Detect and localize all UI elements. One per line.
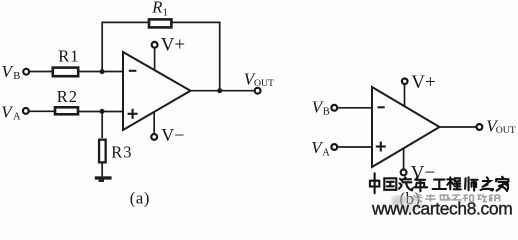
svg-text:www.cartech8.com: www.cartech8.com xyxy=(371,199,512,219)
svg-text:OUT: OUT xyxy=(496,125,516,136)
svg-text:R: R xyxy=(151,0,162,17)
svg-text:1: 1 xyxy=(163,8,168,19)
svg-text:R3: R3 xyxy=(111,143,132,162)
svg-text:OUT: OUT xyxy=(254,78,274,89)
svg-text:(a): (a) xyxy=(130,189,150,208)
svg-text:V−: V− xyxy=(161,125,184,145)
svg-text:A: A xyxy=(322,147,330,158)
svg-text:A: A xyxy=(13,111,21,122)
svg-text:B: B xyxy=(323,106,330,117)
svg-text:V+: V+ xyxy=(161,35,185,56)
svg-text:R1: R1 xyxy=(58,46,79,65)
svg-text:B: B xyxy=(13,71,20,82)
svg-text:R2: R2 xyxy=(57,87,78,106)
svg-text:V+: V+ xyxy=(411,72,435,93)
